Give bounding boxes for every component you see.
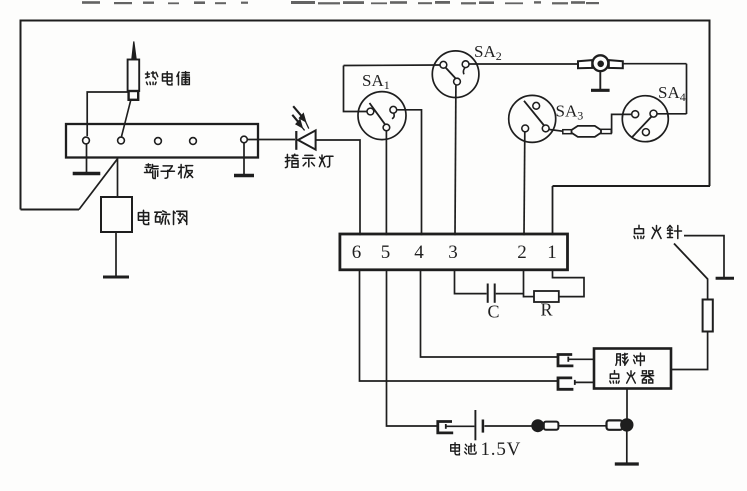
pin number 3 <box>448 242 458 263</box>
label 电磁阀 (solenoid valve) <box>138 210 186 224</box>
wire (pin 1 to resistor R right lead) <box>553 271 585 297</box>
wire (SA3 bottom terminal to pin 2) <box>523 132 526 235</box>
label 热电偶 (thermocouple) <box>145 72 189 85</box>
capacitor C <box>488 284 495 303</box>
wire (pin 2 lead to resistor R) <box>524 296 535 298</box>
solenoid valve 电磁阀 <box>101 197 132 232</box>
ground (under terminal 1) <box>86 145 88 174</box>
wire (thermocouple diagonal lead to terminal 2) <box>122 100 131 137</box>
wire (plug to battery) <box>446 425 475 427</box>
switch SA3 <box>509 95 556 142</box>
label 脉冲 (pulse) <box>616 353 644 365</box>
label SA4 <box>658 83 686 104</box>
ground (under solenoid) <box>115 232 117 277</box>
wire (spark gap diagonal) <box>674 244 708 280</box>
terminal 4 <box>190 138 197 145</box>
pin number 2 <box>517 242 527 263</box>
svg-text:SA2: SA2 <box>474 42 502 63</box>
pin number 5 <box>381 242 391 263</box>
fuse between SA3 and SA4 <box>563 126 611 137</box>
svg-text:2: 2 <box>517 242 527 263</box>
resistor R <box>534 291 559 302</box>
terminal 2 <box>118 137 125 144</box>
wire (diagonal from frame to terminal board) <box>79 159 118 210</box>
wire (SA2 right terminal to gas valve) <box>469 63 578 65</box>
label C <box>488 302 500 322</box>
svg-text:SA1: SA1 <box>362 71 390 92</box>
svg-text:C: C <box>488 302 500 322</box>
label 点火针 (ignition needle) <box>634 225 682 238</box>
gas valve / motor symbol (circle with dot) <box>578 55 623 71</box>
terminal 1 <box>83 137 90 144</box>
wire (capacitor to pin 2 lead) <box>496 293 524 295</box>
label 点火器 (igniter) <box>610 371 654 383</box>
wire (terminal 5 to LED) <box>248 139 295 141</box>
plug 1 pin tick <box>567 357 569 362</box>
junction node (solder dot) <box>621 419 633 431</box>
enclosure frame wire (right) <box>709 20 711 187</box>
svg-text:1: 1 <box>547 242 557 263</box>
wire (plug to junction) <box>558 425 606 427</box>
label SA3 <box>556 102 584 123</box>
wire (pin 5 down to battery line) <box>387 271 438 427</box>
label 电池 (battery) <box>451 443 476 455</box>
battery plug pin tick <box>445 424 447 429</box>
svg-text:R: R <box>541 300 553 320</box>
label R <box>541 300 553 320</box>
svg-text:SA3: SA3 <box>556 102 584 123</box>
ignition needle electrode bar <box>716 277 734 280</box>
wire (board to solenoid valve) <box>117 158 119 197</box>
switch SA4 <box>622 96 668 142</box>
svg-text:1.5V: 1.5V <box>481 439 522 460</box>
LED indicator lamp 指示灯 <box>292 106 315 150</box>
thermocouple probe <box>128 42 140 100</box>
label SA1 <box>362 71 390 92</box>
switch SA1 <box>358 92 406 140</box>
svg-text:6: 6 <box>352 242 362 263</box>
wire (LED to pin 6) <box>317 140 361 235</box>
wire (SA1 left lead and riser to top wire) <box>344 66 367 112</box>
wire (frame step horizontal to pin 1 riser) <box>553 185 711 187</box>
wire (battery to plug) <box>484 425 531 427</box>
wire (pin 1 riser) <box>552 186 554 235</box>
plug connector (battery left) <box>438 422 453 433</box>
enclosure frame wire (top) <box>21 20 710 22</box>
wire (SA2 bottom terminal to pin 3) <box>454 85 457 235</box>
switch SA2 <box>432 51 479 98</box>
wire (SA3 right terminal to fuse) <box>549 130 563 132</box>
terminal 3 <box>155 138 162 145</box>
ground (under terminal 5) <box>243 143 245 176</box>
wire (pin 6 to igniter plug 2) <box>360 271 558 382</box>
terminal 5 <box>241 136 248 143</box>
plug connector (igniter input 1) <box>558 355 573 366</box>
plug connector (mid battery line, sleeve) <box>544 422 559 430</box>
pin number 4 <box>414 242 424 263</box>
pin number 1 <box>547 242 557 263</box>
wire (pin 3 to capacitor C) <box>455 271 487 294</box>
enclosure frame wire (bottom-left) <box>21 209 80 211</box>
figure caption remnants (clipped text at very top) <box>82 1 599 4</box>
wire (SA1 right lead to pin 4) <box>397 110 421 235</box>
plug connector (at junction, sleeve) <box>607 420 623 429</box>
ground (below junction) <box>626 431 628 465</box>
wire (igniter bottom to junction) <box>626 388 628 419</box>
wire (fuse riser to SA4 left lead) <box>612 114 632 133</box>
wire (SA1 bottom terminal to pin 5) <box>385 131 387 235</box>
pin number 6 <box>352 242 362 263</box>
wire (plug 2 stub into igniter) <box>575 381 595 383</box>
wire (SA4 right lead) <box>657 113 686 115</box>
plug connector (igniter input 2) <box>558 378 573 389</box>
terminal strip (pins 6..1) <box>340 234 568 270</box>
battery 电池 1.5V <box>475 410 483 440</box>
label 1.5V <box>481 439 522 460</box>
wire (thermocouple left lead) <box>87 92 128 136</box>
wire (HV element up to spark gap) <box>707 279 709 300</box>
enclosure frame wire (left) <box>20 20 22 210</box>
svg-text:3: 3 <box>448 242 458 263</box>
plug 2 pin tick <box>574 380 576 385</box>
HV resistor / spark-gap element <box>703 300 713 332</box>
label 端子板 (terminal board) <box>144 164 192 179</box>
wire (gas valve to SA4 riser) <box>623 63 687 65</box>
wire (ignition needle lead) <box>684 236 724 277</box>
label SA2 <box>474 42 502 63</box>
ground (under gas valve symbol) <box>599 71 601 90</box>
label 指示灯 (indicator lamp) <box>285 154 333 167</box>
svg-text:SA4: SA4 <box>658 83 686 104</box>
terminal board 端子板 <box>66 124 258 158</box>
wire (riser down to SA4 right lead) <box>686 64 688 114</box>
wire (pin 4 to igniter plug 1) <box>421 271 558 358</box>
wire (top wire to SA2 left terminal) <box>344 64 441 67</box>
wire (pin 2 lead down) <box>523 271 525 298</box>
svg-text:4: 4 <box>414 242 424 263</box>
wire (igniter output to HV resistor) <box>671 332 708 370</box>
wire (plug 1 stub into igniter) <box>568 358 594 360</box>
svg-text:5: 5 <box>381 242 391 263</box>
pulse igniter box 脉冲点火器 <box>594 349 671 389</box>
plug connector (mid battery line, dot) <box>532 420 544 432</box>
